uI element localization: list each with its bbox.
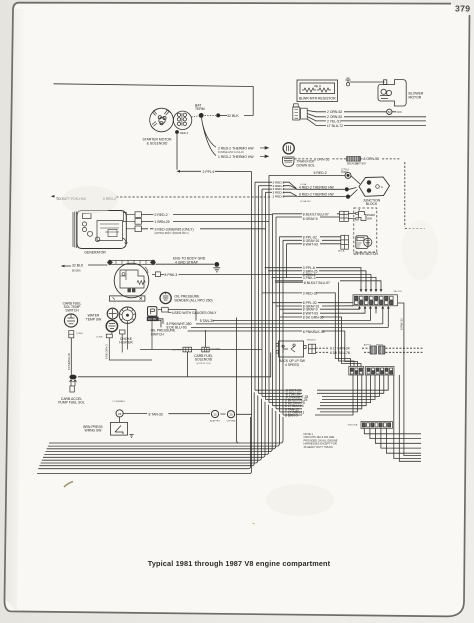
ring terminal A: [211, 410, 218, 417]
svg-text:8 ORN-55: 8 ORN-55: [364, 157, 380, 161]
wire: 2 PPL 6: [179, 170, 252, 172]
svg-text:Typical 1981 through 1987 V8 e: Typical 1981 through 1987 V8 engine comp…: [148, 559, 331, 568]
svg-text:8 PNK-32: 8 PNK-32: [399, 318, 403, 330]
svg-text:CW/TEAL: CW/TEAL: [227, 420, 237, 423]
arrows into row1: [360, 289, 383, 292]
svg-text:SOLENOID: SOLENOID: [195, 358, 213, 362]
svg-text:LT BLU-72: LT BLU-72: [327, 124, 343, 128]
inline connector on ORN-55: [347, 157, 361, 162]
wire: 33 to box: [119, 417, 121, 422]
svg-text:20: 20: [213, 412, 217, 416]
svg-text:8 DK GRN-3: 8 DK GRN-3: [105, 344, 109, 359]
wiper A wires: [273, 214, 340, 217]
svg-text:WRNG SW: WRNG SW: [85, 429, 103, 433]
wire: eng to body grd: [156, 263, 214, 265]
note text block: [304, 432, 338, 449]
svg-text:LT GRN/BLK: LT GRN/BLK: [113, 401, 126, 403]
svg-text:16 GA 25C: 16 GA 25C: [300, 200, 311, 203]
svg-text:8 PNK/BLK-39: 8 PNK/BLK-39: [67, 353, 71, 370]
svg-text:8 RED-2 THERMO HW: 8 RED-2 THERMO HW: [299, 193, 335, 197]
right long verticals: [394, 303, 421, 461]
svg-text:WH-720A: WH-720A: [348, 424, 358, 427]
node: BAT TERM dot: [199, 113, 204, 118]
wire: choke drop: [109, 334, 152, 360]
svg-text:SW: SW: [367, 217, 372, 221]
svg-text:2 YEL-51: 2 YEL-51: [327, 119, 341, 123]
backup lamp switch: [276, 341, 306, 357]
svg-text:BLK-A: BLK-A: [338, 250, 345, 253]
arrow thermo 1: [260, 147, 268, 150]
arrow thermo 2: [260, 155, 268, 158]
wire: 8 PNK/WHT-350: [159, 319, 383, 324]
ground: body ground: [214, 262, 219, 267]
blower motor M1: [378, 80, 406, 106]
wire 3 RED-3J: [262, 293, 351, 366]
generator G1: [73, 211, 128, 249]
svg-text:14 GA: 14 GA: [300, 183, 307, 186]
oil pres dark box: [147, 317, 159, 322]
choke heater connector: [120, 330, 126, 334]
svg-text:8 BRN-9: 8 BRN-9: [285, 414, 298, 418]
oil pressure sender: [160, 292, 171, 303]
wiper motor M2: [356, 236, 372, 249]
svg-text:8 PNK/BLK-39: 8 PNK/BLK-39: [303, 330, 325, 334]
junction oval carb accel: [69, 375, 76, 380]
generator pins: [126, 212, 141, 232]
blower connector: [293, 104, 307, 120]
svg-text:A: A: [381, 185, 383, 189]
row labels 3 RED-2: [273, 180, 285, 198]
blower resistor box: [297, 80, 338, 102]
svg-text:3 PNK-3: 3 PNK-3: [303, 276, 316, 280]
bottom long bundle: [38, 392, 283, 468]
svg-text:SENDER (ALL RPO 250): SENDER (ALL RPO 250): [174, 298, 212, 302]
svg-text:CONN: CONN: [76, 333, 83, 335]
svg-text:HEATER: HEATER: [119, 341, 133, 345]
dashed enclosure park/wiper: [354, 208, 377, 252]
wire: solenoid to bat term dotted: [192, 116, 200, 117]
svg-text:8 PNK-3: 8 PNK-3: [165, 273, 178, 277]
svg-text:TEMP SW: TEMP SW: [86, 317, 102, 321]
arrows up to junction: [70, 380, 77, 386]
svg-text:ORN: ORN: [397, 112, 402, 114]
svg-text:(L6?/L25 7LG): (L6?/L25 7LG): [196, 363, 210, 365]
connector row 2: [349, 367, 394, 376]
thin rect under engine: [109, 296, 144, 301]
ground terminal for blower: [345, 78, 350, 86]
svg-text:TERM: TERM: [341, 172, 348, 174]
svg-text:32 BLK: 32 BLK: [72, 263, 84, 267]
wire: 32 BLK engine ground: [64, 265, 108, 266]
wire: 8 ORN-55 dashed: [295, 159, 426, 229]
junction terminal ring: [345, 172, 351, 178]
node: solenoid lower terminal: [175, 130, 179, 134]
engine circle E1: [107, 260, 155, 298]
svg-text:BLOCK: BLOCK: [366, 202, 378, 206]
connector below carb fuel switch: [69, 331, 74, 338]
svg-text:2 RED-2 THERMO HW: 2 RED-2 THERMO HW: [218, 146, 254, 150]
svg-text:USED WITH GAUGES ONLY: USED WITH GAUGES ONLY: [172, 311, 217, 315]
svg-text:8 GRAY-9: 8 GRAY-9: [303, 217, 318, 221]
junction block J1: [359, 177, 390, 196]
svg-text:DOWN SOL: DOWN SOL: [297, 163, 315, 167]
connector ring 52: [387, 109, 392, 114]
paper smudges: [62, 186, 118, 214]
carb accel rect: [70, 386, 74, 392]
svg-text:SWITCH: SWITCH: [151, 332, 165, 336]
svg-text:8 ORN-55: 8 ORN-55: [314, 158, 330, 162]
park sw connector: [340, 211, 356, 221]
svg-text:3 RED-3J: 3 RED-3J: [303, 292, 318, 296]
svg-text:WH-720: WH-720: [394, 291, 403, 293]
node dot 4RED: [345, 187, 349, 191]
oil pressure P box: [148, 307, 157, 317]
node dot 8RED: [346, 195, 350, 199]
svg-text:1 BRN-25: 1 BRN-25: [155, 220, 170, 224]
svg-text:8 TAN-33: 8 TAN-33: [149, 412, 163, 416]
trans kickdown solenoid: [283, 143, 295, 167]
wire: solenoid down to 2 PPL: [176, 134, 178, 170]
wire: junction block feeds: [349, 176, 360, 197]
svg-text:32 BLK: 32 BLK: [227, 114, 239, 118]
svg-text:8 DK BLU-93: 8 DK BLU-93: [167, 326, 187, 330]
svg-text:ADPTR: ADPTR: [364, 343, 372, 346]
connector row 3: [361, 422, 393, 429]
svg-text:PUMP FUEL SOL: PUMP FUEL SOL: [58, 401, 85, 405]
wires row2 to bottom labels: [255, 375, 388, 415]
svg-text:BATTERY: BATTERY: [356, 162, 367, 165]
connector row 1: [353, 295, 398, 306]
wire: 8 PNK-3: [160, 274, 371, 276]
backup connector: [308, 344, 315, 353]
wires: RED-2 label rows: [116, 182, 346, 197]
lower label wires into row1: [273, 303, 389, 328]
inner left shading: [5, 9, 26, 611]
svg-text:3 RED-2(K8)/K85 (ONLY): 3 RED-2(K8)/K85 (ONLY): [155, 227, 194, 231]
svg-text:8 DK GRN-35: 8 DK GRN-35: [303, 315, 324, 319]
wires: blower harness 4 lines: [307, 111, 426, 126]
svg-text:GENERATOR: GENERATOR: [84, 251, 106, 255]
wire: component drops: [112, 316, 262, 349]
carb fuel sol connector R: [202, 347, 209, 352]
svg-text:4 GRD STRAP: 4 GRD STRAP: [175, 261, 199, 265]
svg-text:BK/DBN: BK/DBN: [72, 271, 81, 273]
svg-text:SWITCH: SWITCH: [65, 309, 79, 313]
wire: 5 RED-2: [269, 174, 345, 176]
svg-text:A: A: [316, 85, 318, 89]
svg-text:1 RED-2 THERMO HW: 1 RED-2 THERMO HW: [218, 155, 254, 159]
svg-text:WH-BLU: WH-BLU: [307, 340, 316, 342]
svg-text:5 TAN-31: 5 TAN-31: [200, 319, 214, 323]
svg-text:8 BLK/LT BLU-97: 8 BLK/LT BLU-97: [304, 281, 330, 285]
connector water temp drop: [106, 334, 112, 338]
svg-text:5 RED-2: 5 RED-2: [314, 171, 327, 175]
main harness verticals: [37, 172, 283, 474]
wire pnk/blk-39 to row2: [188, 331, 358, 366]
svg-text:BLWR MTR RESISTOR: BLWR MTR RESISTOR: [299, 97, 336, 101]
svg-text:379: 379: [455, 4, 471, 14]
svg-text:HRNSS: HRNSS: [376, 344, 384, 346]
wire blk/lt blu to row2: [275, 282, 354, 366]
svg-text:TERM: TERM: [195, 107, 205, 111]
3PPL bundle wires: [265, 268, 381, 290]
wire: 8 DK BLU-93: [159, 320, 389, 327]
svg-text:(2WH/CD BODY (K8)/K85 ONLY): (2WH/CD BODY (K8)/K85 ONLY): [155, 233, 189, 235]
wire: bat term fan to thermo labels: [202, 118, 217, 156]
carb fuel sol connector L: [183, 347, 192, 352]
svg-text:MOTOR: MOTOR: [409, 95, 422, 99]
svg-text:ADAPTER: ADAPTER: [210, 420, 220, 423]
svg-text:WIPER MOTOR: WIPER MOTOR: [353, 252, 378, 256]
wire: battery feed top: [54, 84, 254, 116]
svg-text:46 HEAVY DUTY TRUCK: 46 HEAVY DUTY TRUCK: [304, 445, 334, 449]
inline connectors on dashed pair: [370, 346, 385, 354]
wiper B wires: [280, 237, 341, 278]
wiper B connector: [341, 235, 349, 249]
svg-text:2 PPL 6: 2 PPL 6: [203, 170, 215, 174]
wire: carb fuel vertical: [70, 338, 72, 375]
dashed wire 8 LT GRN-24: [316, 348, 424, 352]
pressure switch box: [111, 422, 134, 437]
svg-text:2 RED-2: 2 RED-2: [273, 194, 285, 198]
wire: 32 BLK to bat term: [202, 114, 216, 116]
arrows up to row1: [358, 306, 390, 309]
park switch: [356, 212, 366, 221]
row3 exit wires: [364, 428, 421, 453]
circle 33: [116, 410, 123, 417]
solenoid of starter: [173, 111, 191, 129]
svg-text:FUSIBLE LINK 14 GA 2C: FUSIBLE LINK 14 GA 2C: [218, 151, 244, 154]
svg-text:20: 20: [229, 413, 233, 417]
label USED WITH GAUGES ONLY: [168, 311, 172, 313]
gauge connector: [162, 307, 169, 312]
svg-text:4 SPEED: 4 SPEED: [285, 363, 300, 367]
svg-text:33: 33: [118, 412, 122, 416]
wire: 2 RED-2 from generator: [141, 215, 272, 229]
wire: 5 TAN-31: [168, 310, 370, 321]
wire: left conn down to pnk/blk: [78, 352, 271, 377]
svg-text:8 DK BLU-76: 8 DK BLU-76: [330, 351, 350, 355]
svg-text:8 WHT-93: 8 WHT-93: [303, 242, 318, 246]
svg-text:& SOLENOID: & SOLENOID: [147, 141, 168, 145]
node: terminal dot: [216, 113, 220, 117]
starter motor S1: [150, 108, 174, 132]
distributor: [119, 307, 135, 323]
wire: blower motor feed: [350, 81, 385, 83]
ring terminal B: [227, 411, 234, 418]
svg-text:CONN: CONN: [96, 337, 103, 339]
svg-text:8 BLK/LT BLU-97: 8 BLK/LT BLU-97: [303, 212, 329, 216]
wire dk grn-35 path: [280, 317, 362, 366]
svg-text:2 RED-2: 2 RED-2: [155, 213, 168, 217]
svg-text:2 ORN-52: 2 ORN-52: [327, 110, 342, 114]
wire: 8 TAN-33: [123, 412, 251, 415]
connector: tach pnk-3: [155, 272, 160, 277]
svg-text:RED-3: RED-3: [180, 131, 189, 135]
wire: sol conn up to DK BLU line: [205, 330, 207, 347]
